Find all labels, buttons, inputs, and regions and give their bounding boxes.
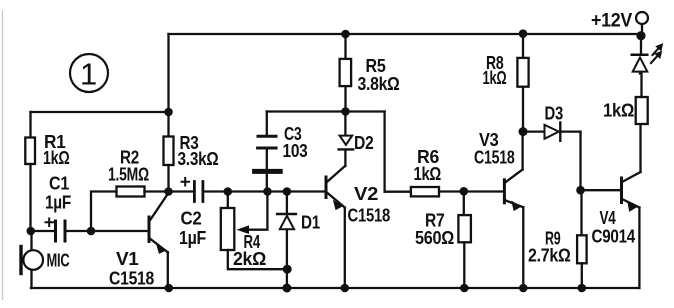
label R5 <box>366 56 386 76</box>
power terminal +12V <box>636 12 648 33</box>
value V3 C1518 <box>474 148 515 168</box>
node R1 C1 MIC <box>27 227 36 236</box>
resistor R7 <box>458 215 471 242</box>
label MIC <box>47 251 70 271</box>
wire to R6 left lead <box>385 191 411 193</box>
node top rail at R8 <box>519 29 528 38</box>
node top rail at R5 <box>341 30 350 39</box>
wire R9 top lead <box>580 190 582 235</box>
wire R5 top lead <box>344 34 346 59</box>
svg-text:1kΩ: 1kΩ <box>603 101 634 121</box>
label R9 <box>545 229 561 249</box>
label R7 <box>425 211 445 231</box>
label R3 <box>180 133 199 153</box>
node C3 bottom <box>263 187 272 196</box>
resistor R9 <box>577 235 587 263</box>
svg-text:C2: C2 <box>181 209 202 229</box>
svg-text:MIC: MIC <box>47 251 70 271</box>
value V1 C1518 <box>109 269 154 289</box>
node R2 tap on base wire <box>87 227 96 236</box>
potentiometer R4 <box>221 208 235 250</box>
resistor R6 <box>411 187 439 196</box>
label R8 <box>486 53 504 73</box>
microphone MIC <box>21 247 43 274</box>
value R2 1.5M <box>108 165 149 185</box>
svg-text:D3: D3 <box>545 104 564 124</box>
resistor R5 <box>340 59 352 86</box>
wire R1 top lead <box>29 112 31 138</box>
node rail R9 <box>578 284 587 293</box>
svg-text:1kΩ: 1kΩ <box>414 164 442 184</box>
wire left vertical from top rail to node <box>167 34 169 112</box>
node rail V2 emitter <box>341 284 350 293</box>
wire R3 top lead <box>167 112 169 137</box>
wire R3 bottom lead <box>167 165 169 192</box>
svg-text:103: 103 <box>283 141 308 161</box>
svg-text:3.3kΩ: 3.3kΩ <box>178 149 219 169</box>
diode D3 <box>523 123 581 141</box>
wire MIC top lead <box>30 231 32 251</box>
value C2 1uF <box>179 228 206 248</box>
node rail V1 emitter <box>165 284 174 293</box>
wire node to C1 <box>31 230 55 232</box>
value LED resistor 1k <box>603 101 634 121</box>
wire LED to resistor <box>640 74 642 98</box>
capacitor C2 <box>182 178 203 202</box>
LED <box>632 38 648 74</box>
wire node to C2 <box>169 190 194 192</box>
transistor V3 <box>504 132 523 288</box>
label C2 <box>181 209 202 229</box>
svg-text:1kΩ: 1kΩ <box>43 148 70 168</box>
label D2 <box>354 133 374 153</box>
label +12V <box>591 11 633 32</box>
wire top supply rail <box>169 33 642 35</box>
wire MIC bottom lead <box>30 270 32 288</box>
node below R5 <box>341 107 350 116</box>
node top rail at +12V <box>636 31 645 40</box>
wire C1 to V1 base <box>67 230 148 232</box>
svg-text:C1: C1 <box>49 174 69 194</box>
LED emission arrows <box>651 44 663 63</box>
value R3 3.3k <box>178 149 219 169</box>
wire C2 to V2 base <box>204 190 324 192</box>
node rail V3 emitter <box>519 284 528 293</box>
svg-text:+12V: +12V <box>591 11 633 32</box>
resistor R3 <box>164 137 174 166</box>
wire R2 right lead <box>145 190 169 192</box>
transistor V4 <box>622 124 641 288</box>
svg-text:2kΩ: 2kΩ <box>233 249 266 269</box>
transistor V2 <box>326 166 345 288</box>
label R6 <box>417 147 439 167</box>
node rail R7 <box>460 284 469 293</box>
node R4 top <box>224 187 233 196</box>
value V4 C9014 <box>592 227 636 247</box>
wire R4 top lead <box>227 192 229 209</box>
label C1 <box>49 174 69 194</box>
value R1 1k <box>43 148 70 168</box>
node R8 D3 V3 collector <box>519 127 528 136</box>
svg-text:C9014: C9014 <box>592 227 636 247</box>
wire R4 wiper <box>238 192 267 234</box>
svg-text:1µF: 1µF <box>45 193 71 213</box>
scan artifact left edge <box>2 10 4 300</box>
resistor R1 <box>25 138 35 165</box>
capacitor C3 <box>255 112 281 192</box>
resistor R2 <box>117 187 145 197</box>
wire R5 node to right drop <box>346 110 385 112</box>
value R8 1k <box>483 68 507 88</box>
value R9 2.7k <box>528 246 571 266</box>
label R1 <box>44 132 66 152</box>
wire R7 bottom lead <box>463 242 465 288</box>
wire D3 cathode drop to V4 base node <box>579 132 581 191</box>
node R6 R7 V3 base <box>460 187 469 196</box>
svg-text:V2: V2 <box>354 184 378 204</box>
value R7 560 <box>415 228 454 248</box>
value V2 C1518 <box>348 206 391 226</box>
wire horizontal y112 to R1 column <box>31 111 169 113</box>
value R4 2k <box>233 249 266 269</box>
svg-text:1kΩ: 1kΩ <box>483 68 507 88</box>
svg-text:2.7kΩ: 2.7kΩ <box>528 246 571 266</box>
wire R1 bottom lead <box>29 164 31 231</box>
label R4 <box>244 232 261 252</box>
node R4 bottom joins D1 line <box>283 265 292 274</box>
svg-text:1.5MΩ: 1.5MΩ <box>108 165 149 185</box>
label R2 <box>120 148 139 168</box>
wire R4 bottom lead <box>228 250 287 269</box>
label D1 <box>301 213 320 233</box>
label C3 <box>284 124 302 144</box>
wire R8 top lead <box>522 34 524 58</box>
svg-text:3.8kΩ: 3.8kΩ <box>358 74 400 94</box>
label D3 <box>545 104 564 124</box>
label V2 <box>354 184 378 204</box>
svg-text:D1: D1 <box>301 213 320 233</box>
wire C3 top to R5 node <box>267 110 346 112</box>
wire vertical drop to R6 <box>383 112 385 192</box>
wire R8 bottom lead <box>522 87 524 132</box>
wire R6 right lead <box>439 190 503 192</box>
svg-text:V4: V4 <box>600 208 616 228</box>
resistor R8 <box>517 58 528 87</box>
value R6 1k <box>414 164 442 184</box>
wire bottom ground rail <box>31 287 639 289</box>
diode D1 <box>277 192 296 289</box>
value R5 3.8k <box>358 74 400 94</box>
transistor V1 <box>149 193 169 288</box>
svg-text:C1518: C1518 <box>348 206 391 226</box>
svg-text:D2: D2 <box>354 133 374 153</box>
svg-text:560Ω: 560Ω <box>415 228 454 248</box>
label V1 <box>116 249 139 269</box>
node D3 R9 V4 base <box>576 186 585 195</box>
node R3 R2 C2 V1 collector <box>164 187 173 196</box>
svg-text:C1518: C1518 <box>109 269 154 289</box>
svg-text:1µF: 1µF <box>179 228 206 248</box>
node D1 top <box>283 187 292 196</box>
figure number circle 1 <box>70 54 108 92</box>
svg-text:C1518: C1518 <box>474 148 515 168</box>
svg-text:R5: R5 <box>366 56 386 76</box>
capacitor C1 <box>46 219 66 242</box>
resistor 1k collector load <box>636 97 648 124</box>
wire node to V4 base <box>581 189 621 191</box>
wire R7 top lead <box>463 192 465 216</box>
node rail D1 <box>282 284 291 293</box>
wire R5 bottom lead <box>344 86 346 111</box>
svg-text:V1: V1 <box>116 249 139 269</box>
value C3 103 <box>283 141 308 161</box>
label V3 <box>479 130 499 150</box>
wire R9 bottom lead <box>581 263 583 288</box>
diode D2 <box>339 112 354 167</box>
wire R2 left lead <box>91 192 117 232</box>
label V4 <box>600 208 616 228</box>
node left rail corner <box>164 108 173 117</box>
value C1 1uF <box>45 193 71 213</box>
svg-text:1: 1 <box>80 57 97 92</box>
label figure 1 <box>80 57 97 92</box>
